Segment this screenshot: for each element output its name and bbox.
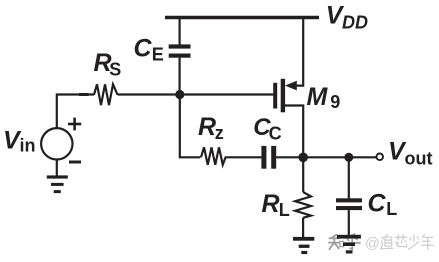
watermark char shao: [413, 235, 415, 242]
label RL: [262, 190, 290, 220]
wire gate node down to Rz: [180, 95, 201, 158]
svg-text:9: 9: [330, 92, 340, 112]
capacitor CC: [261, 146, 276, 169]
wire CC to output node: [276, 156, 303, 158]
watermark char zhui: [382, 237, 383, 239]
ground (CL): [337, 235, 361, 254]
resistor RS: [94, 84, 118, 105]
ground (Vin): [47, 175, 68, 193]
svg-text:E: E: [152, 45, 164, 65]
wire CL node to Vout terminal: [349, 156, 376, 158]
wire CL node down to CL: [348, 157, 350, 198]
label CC: [253, 114, 281, 144]
label Vin: [3, 127, 36, 156]
watermark char xin: [397, 235, 399, 240]
label CL: [368, 190, 398, 220]
transistor M9: [275, 18, 303, 158]
svg-text:C: C: [368, 190, 387, 218]
wire Vin bottom to ground: [56, 160, 58, 177]
wire CE bottom (CE to gate node): [179, 58, 181, 95]
junction node out-left (dot): [298, 153, 308, 163]
M9 channel bar: [281, 79, 285, 113]
svg-text:out: out: [405, 149, 433, 169]
label M9: [307, 83, 341, 112]
capacitor CL: [336, 198, 362, 210]
label Rz: [198, 113, 224, 143]
Vout open terminal: [376, 154, 383, 161]
svg-text:L: L: [279, 200, 290, 220]
capacitor CE: [169, 44, 191, 57]
resistor Rz: [201, 147, 226, 165]
junction node CL (dot): [344, 153, 353, 162]
wire RL to ground: [302, 218, 304, 237]
power rail VDD: [165, 16, 319, 20]
svg-text:z: z: [215, 123, 224, 143]
watermark zhihu: [329, 234, 360, 249]
svg-text:DD: DD: [342, 12, 368, 32]
wire Vin to RS: [57, 95, 94, 129]
source Vin (circle): [41, 128, 72, 159]
label CE: [134, 35, 164, 65]
ground (RL): [293, 237, 314, 254]
net label VDD: [326, 2, 368, 33]
svg-text:C: C: [134, 35, 153, 63]
svg-text:M: M: [307, 83, 329, 111]
svg-text:R: R: [262, 190, 280, 218]
wire dash before RS: [79, 93, 89, 96]
svg-text:C: C: [269, 124, 282, 144]
junction node gate (dot): [175, 90, 184, 99]
M9 source arrow: [285, 81, 297, 91]
wire CE top (rail to CE): [179, 18, 181, 45]
label RS: [94, 49, 122, 80]
resistor RL: [295, 192, 311, 218]
wire Rz to CC: [225, 156, 261, 158]
svg-text:R: R: [198, 113, 216, 141]
svg-text:S: S: [109, 60, 121, 80]
wire output node to CL node: [303, 156, 349, 158]
M9 gate bar: [273, 83, 277, 109]
watermark char nian: [422, 235, 424, 237]
svg-text:@: @: [365, 236, 380, 252]
svg-text:L: L: [386, 199, 397, 219]
Vin plus sign: [68, 118, 81, 131]
watermark char hu: [350, 234, 355, 236]
wire RS to gate of M9: [118, 93, 274, 95]
net label Vout: [388, 138, 432, 169]
svg-text:in: in: [20, 136, 36, 156]
watermark handle text: [365, 235, 433, 253]
M9 source wire to VDD: [296, 18, 304, 86]
wire CL to ground: [348, 210, 350, 235]
M9 drain wire down: [285, 106, 303, 158]
watermark char zhi: [331, 235, 337, 239]
Vin minus sign: [69, 161, 81, 164]
wire node to RL: [302, 157, 304, 192]
